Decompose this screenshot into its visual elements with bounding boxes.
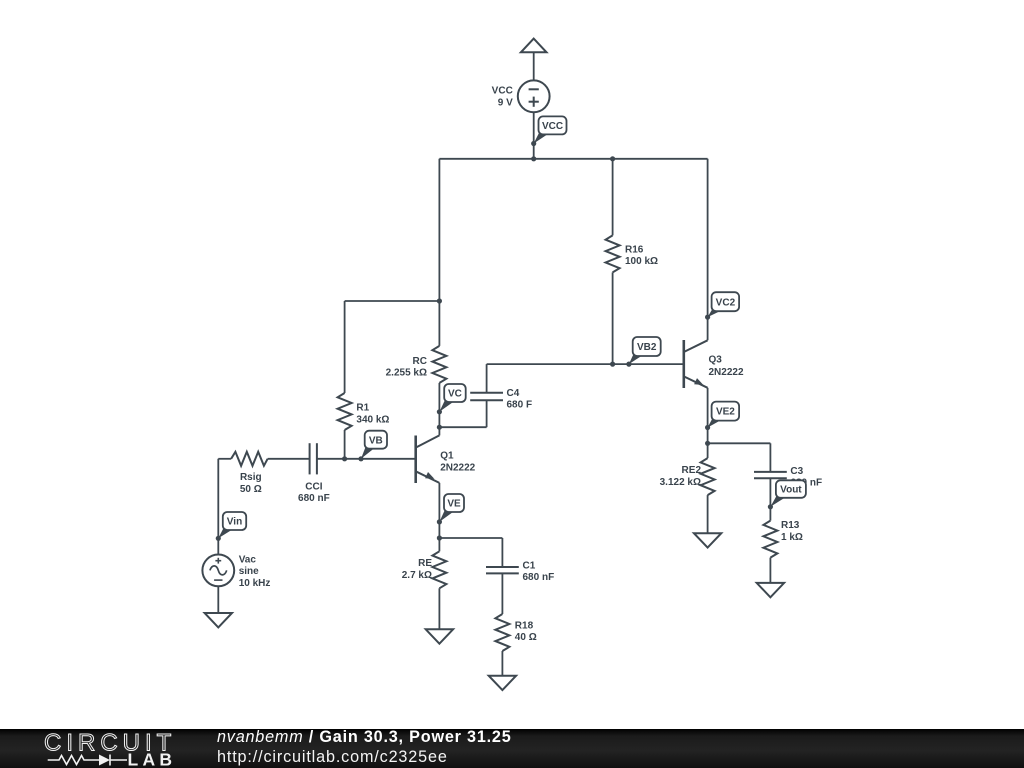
- svg-text:C4: C4: [507, 388, 520, 399]
- svg-text:2.255 kΩ: 2.255 kΩ: [386, 368, 427, 379]
- svg-text:2N2222: 2N2222: [709, 367, 744, 378]
- resistor Rsig 50 ohm: [231, 452, 268, 495]
- wire VCC source to bus: [531, 112, 536, 161]
- node label Vout: [768, 480, 806, 509]
- ground below R13: [757, 583, 784, 597]
- node label VC: [437, 384, 466, 414]
- svg-text:sine: sine: [239, 566, 259, 577]
- wire Rsig to CCI: [268, 458, 310, 460]
- svg-text:RE: RE: [418, 558, 432, 569]
- svg-text:340 kΩ: 340 kΩ: [356, 414, 389, 425]
- resistor RC 2.255 k: [386, 346, 447, 436]
- svg-text:1 kΩ: 1 kΩ: [781, 532, 803, 543]
- wire top bus: [439, 158, 707, 160]
- svg-text:VCC: VCC: [492, 86, 513, 97]
- svg-text:3.122 kΩ: 3.122 kΩ: [660, 477, 701, 488]
- wire Vac to ground: [217, 586, 219, 613]
- logo resistor-diode squiggle: [48, 755, 127, 766]
- power flag VCC (up arrow): [521, 39, 547, 81]
- wire C4 to Q3 base: [487, 362, 684, 393]
- svg-text:VCC: VCC: [542, 121, 563, 132]
- svg-text:R16: R16: [625, 244, 644, 255]
- svg-text:C3: C3: [790, 466, 803, 477]
- svg-text:10 kHz: 10 kHz: [239, 578, 271, 589]
- node label VCC: [531, 116, 566, 146]
- capacitor CCI 680 nF: [298, 443, 330, 504]
- svg-text:Q1: Q1: [440, 450, 454, 461]
- svg-text:LAB: LAB: [128, 750, 177, 768]
- svg-text:C1: C1: [523, 560, 536, 571]
- node label VC2: [705, 292, 739, 320]
- node junction Q3 emitter: [705, 441, 710, 446]
- svg-text:Vout: Vout: [780, 485, 802, 496]
- voltage source Vac sine 10 kHz: [202, 554, 270, 588]
- node label VE2: [705, 402, 739, 431]
- resistor RE 2.7 k: [402, 538, 447, 629]
- node label VB2: [626, 337, 660, 367]
- svg-text:680 F: 680 F: [507, 400, 533, 411]
- svg-text:VE: VE: [447, 499, 461, 510]
- ground below Vac: [205, 613, 232, 627]
- svg-text:Q3: Q3: [709, 354, 723, 365]
- svg-text:40 Ω: 40 Ω: [515, 632, 537, 643]
- svg-text:Vac: Vac: [239, 554, 257, 565]
- wire C1 to R18: [501, 573, 503, 614]
- resistor R16 100 k: [606, 156, 658, 364]
- svg-text:2.7 kΩ: 2.7 kΩ: [402, 570, 432, 581]
- node label VE: [437, 494, 464, 525]
- svg-text:680 nF: 680 nF: [523, 572, 555, 583]
- wire Q3 emitter to C3: [708, 443, 771, 472]
- wire branch to R1: [345, 300, 440, 302]
- VCC source name/value label: [492, 86, 513, 109]
- svg-text:Vin: Vin: [227, 517, 242, 528]
- transistor Q3 2N2222: [684, 159, 744, 444]
- svg-text:RE2: RE2: [682, 465, 702, 476]
- wire Vin corner: [218, 459, 231, 555]
- svg-text:9 V: 9 V: [498, 98, 513, 109]
- node label Vin: [216, 512, 247, 541]
- wire Q1 emitter column: [437, 483, 442, 541]
- resistor RE2 3.122 k: [660, 443, 715, 533]
- footer title text: [217, 729, 512, 745]
- svg-text:Rsig: Rsig: [240, 472, 262, 483]
- wire VE node to C1: [439, 538, 502, 567]
- capacitor C1 680 nF: [486, 560, 554, 583]
- svg-text:VC2: VC2: [716, 297, 736, 308]
- svg-text:CCI: CCI: [305, 481, 322, 492]
- wire base of Q1: [317, 456, 416, 461]
- svg-text:R18: R18: [515, 620, 534, 631]
- svg-text:VB2: VB2: [637, 342, 657, 353]
- transistor Q1 2N2222: [416, 435, 476, 483]
- voltage source VCC 9 V: [518, 80, 550, 112]
- wire C3 to R13: [769, 478, 771, 520]
- ground below RE2: [694, 533, 721, 547]
- svg-text:VC: VC: [448, 389, 462, 400]
- resistor R18 40 ohm: [495, 614, 536, 676]
- svg-text:R13: R13: [781, 520, 800, 531]
- footer bar: [0, 729, 1024, 768]
- svg-text:2N2222: 2N2222: [440, 462, 475, 473]
- resistor R1 340 k: [338, 301, 390, 459]
- svg-text:50 Ω: 50 Ω: [240, 484, 262, 495]
- ground below R18: [489, 676, 516, 690]
- svg-text:VE2: VE2: [716, 407, 735, 418]
- svg-text:100 kΩ: 100 kΩ: [625, 256, 658, 267]
- wire bus to RC column: [437, 159, 442, 346]
- svg-text:RC: RC: [413, 356, 427, 367]
- svg-text:680 nF: 680 nF: [298, 493, 330, 504]
- footer url text: [217, 749, 448, 765]
- svg-text:R1: R1: [356, 403, 369, 414]
- resistor R13 1 k: [763, 520, 803, 583]
- wire Q1 collector to C4: [437, 400, 487, 430]
- ground below RE: [426, 629, 453, 643]
- node label VB: [358, 431, 387, 462]
- svg-text:VB: VB: [369, 435, 383, 446]
- capacitor C4 680 F: [470, 388, 532, 411]
- capacitor C3 680 nF: [754, 466, 822, 489]
